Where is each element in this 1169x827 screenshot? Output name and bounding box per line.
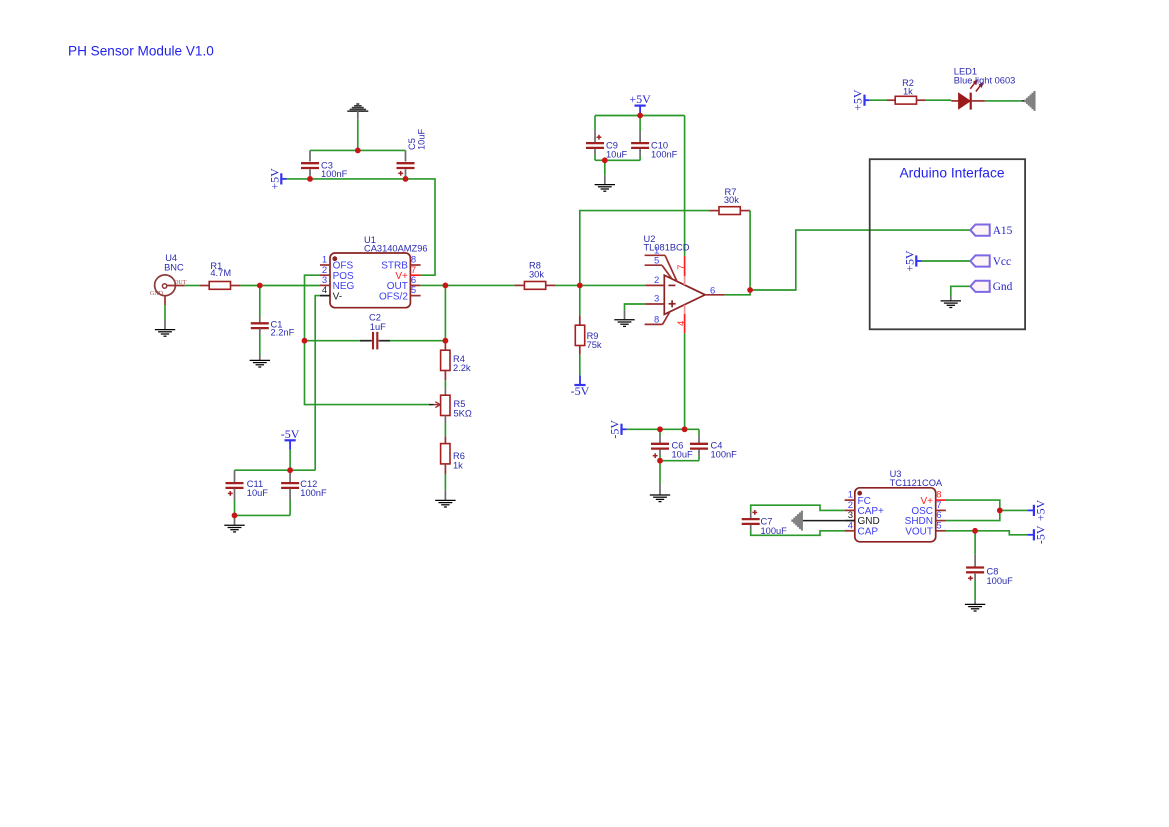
wire — [556, 284, 646, 286]
svg-text:1k: 1k — [903, 87, 913, 97]
op-amp U2 triangle — [644, 234, 706, 314]
svg-text:GND: GND — [150, 291, 164, 297]
U1 pin 3 NEG — [320, 275, 354, 292]
cone ground (U3) — [792, 511, 802, 531]
wire U1.2 POS to R5 wiper — [305, 275, 430, 404]
svg-text:10uF: 10uF — [417, 128, 427, 150]
resistor R6 1k — [441, 436, 465, 474]
U1 pin 5 OFS/2 — [379, 285, 421, 302]
junction node — [637, 113, 643, 119]
svg-text:OFS/2: OFS/2 — [379, 291, 408, 302]
svg-text:7: 7 — [676, 265, 687, 270]
U3 pin 8 V+ — [920, 490, 945, 507]
U1 pin 1 OFS — [320, 255, 353, 272]
svg-text:100nF: 100nF — [651, 150, 678, 160]
wire Gnd — [951, 286, 971, 300]
power flag -5V (down) — [571, 376, 590, 399]
wire — [1000, 509, 1028, 511]
U2 pin 4 faded segment — [684, 305, 686, 314]
svg-text:4: 4 — [676, 321, 687, 326]
capacitor C1 2.2nF — [251, 286, 295, 338]
wire U1.6 OUT to R8 — [421, 284, 515, 286]
wire U3.8 V+ loop — [946, 500, 1000, 520]
wire — [579, 355, 581, 376]
svg-text:1uF: 1uF — [370, 322, 386, 332]
svg-text:C5: C5 — [407, 138, 417, 150]
ground (C6/C4) — [650, 461, 670, 502]
svg-text:VOUT: VOUT — [905, 526, 933, 537]
svg-text:C8: C8 — [987, 566, 999, 576]
svg-text:10uF: 10uF — [672, 450, 694, 460]
ground (Arduino) — [941, 301, 961, 308]
svg-text:+5V: +5V — [629, 92, 651, 106]
wire — [289, 450, 291, 470]
U3 pin 3 GND — [845, 510, 880, 527]
power flag +5V (Vcc) — [902, 250, 921, 272]
wire — [240, 285, 320, 287]
junction node — [355, 148, 361, 154]
junction node — [403, 176, 409, 182]
U3 pin 5 VOUT — [905, 520, 946, 537]
wire +5V rail — [595, 115, 685, 117]
svg-text:+5V: +5V — [267, 168, 281, 190]
title: PH Sensor Module V1.0 — [68, 44, 214, 59]
wire U1.4 V- down to -5V rail — [315, 296, 320, 471]
junction node — [602, 157, 608, 163]
power flag +5V (left) — [267, 168, 286, 190]
power flag -5V — [281, 427, 300, 450]
U1 pin 7 V+ — [395, 265, 420, 282]
wire — [870, 99, 887, 101]
svg-text:+5V: +5V — [902, 250, 916, 272]
wire — [287, 178, 311, 180]
potentiometer R5 5K — [429, 388, 472, 423]
U1 pin 2 POS — [320, 265, 354, 282]
junction node — [307, 176, 313, 182]
svg-text:100uF: 100uF — [761, 526, 788, 536]
svg-text:5: 5 — [411, 285, 416, 296]
U1 pin 8 STRB — [381, 255, 420, 272]
U2 pin 1 — [645, 245, 677, 281]
ground (C9/C10) — [595, 160, 615, 191]
wire R7 right — [749, 211, 751, 290]
ground (C1) — [250, 335, 270, 368]
capacitor C10 100nF — [631, 116, 678, 161]
junction node — [232, 513, 238, 519]
wire — [595, 159, 640, 161]
wire U3.3 GND — [802, 520, 845, 522]
wire — [926, 99, 952, 101]
U2 pin 4 (vertical) — [676, 314, 687, 333]
power flag +5V (top) — [629, 92, 651, 115]
capacitor C3 100nF — [301, 150, 348, 179]
capacitor C2 1uF — [305, 313, 446, 350]
ground (C11/C12) — [224, 515, 244, 532]
power flag -5V (U3) — [1027, 525, 1047, 544]
junction node — [443, 283, 449, 289]
svg-text:100nF: 100nF — [321, 169, 348, 179]
svg-text:-5V: -5V — [608, 420, 622, 439]
wire — [444, 285, 446, 340]
junction node — [657, 426, 663, 432]
svg-text:100uF: 100uF — [987, 576, 1014, 586]
svg-text:100nF: 100nF — [711, 450, 738, 460]
svg-text:30k: 30k — [529, 270, 544, 280]
svg-text:3: 3 — [654, 294, 659, 305]
U2 pin 6 output — [705, 285, 725, 296]
cone ground (LED) — [1022, 91, 1035, 111]
U2 pin 7 faded segment — [684, 276, 686, 285]
wire — [310, 149, 406, 151]
resistor R1 4.7M — [199, 261, 240, 290]
junction node — [257, 283, 263, 289]
U2 pin 5 — [645, 255, 672, 279]
net flag Gnd — [970, 281, 1012, 294]
svg-text:-5V: -5V — [1033, 525, 1047, 544]
svg-text:10uF: 10uF — [247, 488, 269, 498]
capacitor C11 10uF (polarized) — [226, 470, 269, 515]
wire to A15 — [750, 230, 970, 290]
svg-text:10uF: 10uF — [606, 150, 628, 160]
net flag Vcc — [970, 255, 1011, 268]
resistor R8 30k — [515, 261, 556, 290]
svg-text:4.7M: 4.7M — [210, 268, 231, 278]
wire — [444, 380, 446, 388]
connector U4 BNC — [150, 253, 187, 305]
junction node — [443, 338, 449, 344]
svg-text:BNC: BNC — [164, 263, 184, 273]
wire U2.3 to ground — [625, 304, 646, 319]
capacitor C8 100uF (polarized) — [966, 531, 1013, 601]
op-amp U1 CA3140AMZ96 — [330, 235, 428, 308]
U3 pin 7 OSC — [911, 500, 946, 517]
wire — [444, 423, 446, 436]
junction node — [747, 287, 753, 293]
wire +5V down to U2.7 — [684, 116, 686, 256]
net flag A15 — [970, 225, 1012, 238]
svg-text:Vcc: Vcc — [993, 256, 1011, 268]
U2 pin 3 non-inverting — [645, 294, 664, 305]
U1 pin 4 V- — [320, 285, 342, 302]
capacitor C7 100uF (polarized) — [742, 505, 845, 536]
svg-text:+5V: +5V — [851, 89, 865, 111]
resistor R7 30k — [709, 187, 750, 215]
U3 pin 1 FC — [845, 490, 871, 507]
svg-text:Blue light 0603: Blue light 0603 — [954, 75, 1016, 85]
wire U3.5 VOUT — [946, 531, 1028, 535]
capacitor C12 100nF — [281, 470, 327, 515]
resistor R4 2.2k — [441, 341, 471, 381]
svg-text:30k: 30k — [724, 195, 739, 205]
junction node — [287, 467, 293, 473]
svg-text:1k: 1k — [453, 460, 463, 470]
svg-text:5: 5 — [654, 255, 659, 266]
power flag -5V (left) — [608, 420, 627, 439]
ground (C8) — [965, 601, 985, 611]
svg-text:-5V: -5V — [281, 427, 300, 441]
svg-text:CA3140AMZ96: CA3140AMZ96 — [364, 244, 428, 254]
Arduino Interface box — [870, 159, 1025, 329]
wire R7 left — [580, 211, 709, 286]
ground (R6) — [435, 474, 455, 507]
wire — [235, 514, 291, 516]
wire — [627, 428, 699, 430]
junction node — [577, 283, 583, 289]
svg-text:-5V: -5V — [571, 384, 590, 398]
svg-text:5: 5 — [936, 520, 941, 531]
svg-text:4: 4 — [848, 520, 853, 531]
wire U2 out — [725, 290, 750, 295]
wire -5V rail — [235, 469, 316, 471]
junction node — [682, 426, 688, 432]
svg-text:V-: V- — [333, 291, 342, 302]
svg-text:5KΩ: 5KΩ — [454, 409, 472, 419]
resistor R9 75k — [575, 285, 602, 354]
U2 pin 2 inverting — [645, 275, 664, 286]
capacitor C5 10uF (polarized) — [397, 128, 427, 178]
svg-text:CAP: CAP — [858, 526, 879, 537]
svg-text:100nF: 100nF — [300, 488, 327, 498]
svg-text:U4: U4 — [165, 253, 177, 263]
wire — [660, 460, 699, 462]
svg-text:8: 8 — [654, 314, 659, 325]
power flag +5V (U3) — [1027, 499, 1047, 521]
svg-text:2.2k: 2.2k — [453, 363, 471, 373]
svg-text:A15: A15 — [993, 225, 1013, 237]
U3 pin 2 CAP+ — [845, 500, 884, 517]
svg-text:Gnd: Gnd — [993, 281, 1013, 293]
U1 pin 6 OUT — [387, 275, 421, 292]
junction node — [997, 508, 1003, 514]
U3 pin 4 CAP — [845, 520, 879, 537]
LED1 Blue light 0603 — [951, 67, 1015, 110]
junction node — [972, 528, 978, 534]
ic U3 TC1121COA — [855, 469, 943, 542]
svg-text:PH Sensor Module V1.0: PH Sensor Module V1.0 — [68, 44, 214, 59]
wire +5V to U1 pin7 — [406, 179, 436, 275]
svg-text:75k: 75k — [587, 340, 602, 350]
ground (BNC) — [155, 305, 175, 336]
wire — [985, 100, 1022, 102]
capacitor C9 10uF (polarized) — [586, 116, 628, 161]
wire U2.4 down — [684, 333, 686, 429]
ground (U2.3) — [614, 320, 634, 327]
cone ground (top) — [347, 104, 368, 120]
wire — [922, 260, 971, 262]
svg-text:4: 4 — [322, 285, 327, 296]
svg-text:TL081BCD: TL081BCD — [644, 242, 690, 252]
svg-text:2: 2 — [654, 275, 659, 286]
wire — [357, 120, 359, 151]
svg-text:+5V: +5V — [1033, 499, 1047, 521]
svg-text:C7: C7 — [761, 517, 773, 527]
junction node — [302, 338, 308, 344]
svg-text:6: 6 — [710, 285, 715, 296]
capacitor C6 10uF (polarized) — [651, 429, 693, 460]
svg-text:TC1121COA: TC1121COA — [890, 478, 943, 488]
svg-text:2.2nF: 2.2nF — [271, 328, 295, 338]
resistor R2 1k — [887, 78, 926, 104]
U2 pin 7 V+ (vertical) — [676, 256, 687, 276]
svg-text:Arduino Interface: Arduino Interface — [899, 165, 1004, 180]
junction node — [657, 458, 663, 464]
U2 pin 8 — [645, 312, 670, 325]
capacitor C4 100nF — [690, 429, 737, 460]
U3 pin 6 SHDN — [905, 510, 946, 527]
power flag +5V (LED) — [851, 89, 870, 111]
wire — [310, 178, 406, 180]
wire — [185, 285, 200, 287]
